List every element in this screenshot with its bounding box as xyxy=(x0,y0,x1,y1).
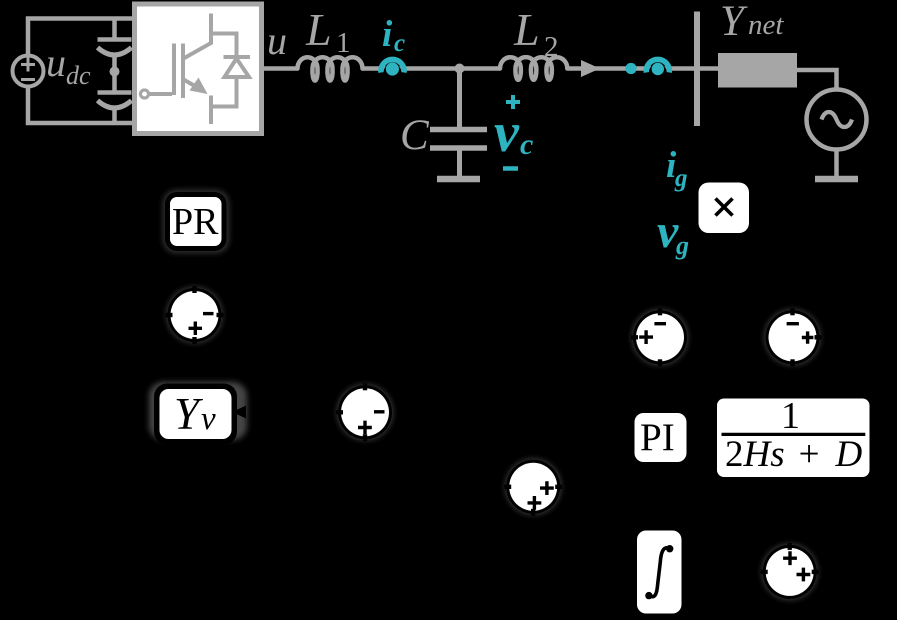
inverter box xyxy=(135,4,262,134)
ground (grid) xyxy=(815,150,858,180)
label i_g xyxy=(666,145,688,192)
wire Ynet to grid source xyxy=(797,70,837,89)
inductor L2 xyxy=(500,57,567,80)
swing equation block 1/(2Hs+D) xyxy=(717,395,870,477)
integrator block xyxy=(637,531,682,614)
dc-link capacitor lower xyxy=(98,93,132,124)
label L2 xyxy=(513,4,559,63)
label vc plus xyxy=(506,95,520,109)
admittance block Yv xyxy=(149,382,247,445)
svg-text:PR: PR xyxy=(172,201,219,243)
current direction arrow xyxy=(581,60,600,77)
svg-text:1: 1 xyxy=(781,395,800,437)
bus bar xyxy=(694,12,700,127)
svg-text:net: net xyxy=(748,9,784,41)
svg-text:c: c xyxy=(394,30,405,57)
label vc minus xyxy=(503,166,518,171)
svg-text:c: c xyxy=(520,128,533,161)
summing junction S1 xyxy=(166,286,224,344)
PR controller block xyxy=(163,190,229,253)
svg-text:i: i xyxy=(382,14,393,55)
node teal dot xyxy=(625,63,636,74)
svg-text:v: v xyxy=(201,401,216,437)
svg-text:Y: Y xyxy=(720,0,748,45)
svg-text:dc: dc xyxy=(66,61,91,90)
label Y_net xyxy=(720,0,784,45)
admittance Ynet xyxy=(718,53,797,88)
svg-text:g: g xyxy=(674,165,688,192)
summing junction S3 xyxy=(631,308,688,366)
wire dc loop xyxy=(28,19,135,124)
dc source Udc xyxy=(13,56,44,87)
svg-text:u: u xyxy=(267,18,287,63)
svg-text:u: u xyxy=(46,40,66,85)
svg-text:g: g xyxy=(675,231,689,260)
current sensor ig xyxy=(646,59,669,75)
PI controller block xyxy=(635,413,687,462)
wire inverter output xyxy=(263,66,298,71)
svg-text:1: 1 xyxy=(336,27,351,59)
label u_dc xyxy=(46,40,91,90)
svg-text:PI: PI xyxy=(640,416,675,459)
IGBT Q1 xyxy=(141,14,237,125)
svg-text:2: 2 xyxy=(544,31,559,63)
label v_g xyxy=(657,205,689,260)
wire L1 to node xyxy=(362,66,500,71)
label i_c xyxy=(382,14,405,57)
svg-text:L: L xyxy=(305,4,332,55)
node junction xyxy=(455,64,465,74)
summing junction S6 xyxy=(761,543,819,600)
svg-text:C: C xyxy=(400,112,430,159)
dc-link capacitor upper xyxy=(98,19,132,93)
IGBT emitter arrow xyxy=(190,78,208,95)
capacitor C branch xyxy=(430,69,487,177)
label v_c xyxy=(494,102,533,164)
summing junction S2 xyxy=(336,383,393,441)
wire L2 to bus xyxy=(568,66,718,71)
ac grid source xyxy=(807,90,867,150)
svg-text:v: v xyxy=(494,102,520,164)
summing junction S4 xyxy=(765,308,822,366)
svg-text:L: L xyxy=(513,4,540,55)
label L1 xyxy=(305,4,351,59)
dc-link midpoint node xyxy=(110,67,120,77)
ground (capacitor) xyxy=(437,176,480,183)
antiparallel diode D1 xyxy=(211,57,250,107)
summing junction S5 xyxy=(504,459,562,516)
current sensor ic xyxy=(381,59,404,75)
multiplier block xyxy=(699,183,750,234)
inductor L1 xyxy=(298,57,363,80)
